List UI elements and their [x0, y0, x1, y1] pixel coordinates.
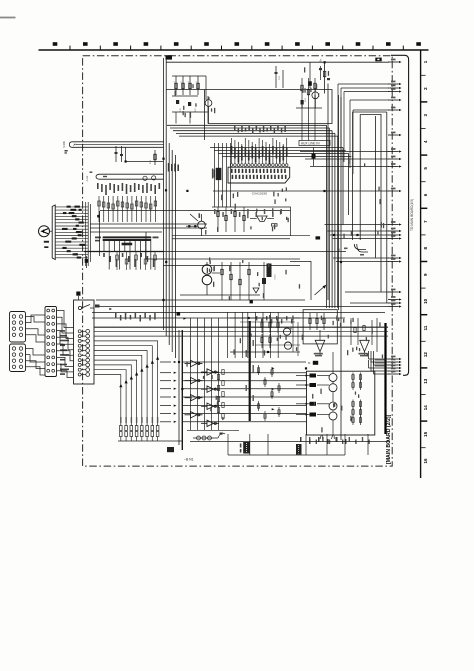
svg-text:15: 15 — [423, 431, 428, 437]
shielded cable S.008 — [69, 142, 163, 148]
labels q4 — [256, 316, 292, 324]
bus wires mid nest — [167, 124, 327, 126]
transistor Q402 — [284, 342, 291, 349]
wire bottom collect — [118, 440, 183, 442]
thick vertical IC bar — [249, 321, 251, 421]
right ruler ticks — [421, 75, 428, 447]
connector bar CN102 — [96, 174, 164, 179]
transistors lower box — [329, 374, 337, 382]
wires through connector field — [85, 202, 87, 266]
wires arrows band4 — [325, 224, 390, 226]
svg-text:R120: R120 — [150, 160, 152, 164]
arrow column mid — [160, 361, 171, 363]
wire vertical bus from top border — [163, 58, 165, 330]
svg-text:C110: C110 — [279, 76, 281, 80]
resistor array bottom — [120, 426, 159, 442]
bus verticals far right — [327, 84, 329, 301]
svg-text:C114: C114 — [319, 93, 321, 97]
junction dots bus — [162, 158, 164, 160]
AUX LINE label box — [299, 141, 330, 146]
top ruler ticks — [70, 46, 403, 50]
wires arrows band6 — [369, 358, 390, 360]
IC101 designator label — [216, 168, 222, 180]
wire frame q4 — [230, 317, 300, 319]
component labels row — [97, 183, 160, 195]
junction on pin row — [97, 215, 100, 218]
label box aux — [296, 444, 302, 455]
svg-text:16: 16 — [423, 458, 428, 464]
connector CN301 — [10, 312, 26, 343]
label box IC601 — [243, 442, 249, 454]
amp box upper — [303, 310, 337, 344]
ribbon connector CN101 — [52, 205, 55, 260]
wire rows left cluster — [90, 223, 207, 225]
top ruler zone letters — [53, 42, 421, 46]
transistor Q101 cluster — [172, 75, 206, 77]
cluster Q502 wires — [350, 318, 352, 345]
wires cluster to bus — [375, 359, 386, 361]
electrolytic caps row — [193, 437, 218, 439]
connector pin labels — [62, 206, 85, 259]
pin labels left of relay — [60, 330, 69, 375]
top ruler line — [39, 49, 429, 51]
switch arm wire — [315, 285, 327, 295]
mid arrows on wires — [272, 367, 275, 369]
component row resistors — [98, 196, 157, 222]
labels below bold wire — [103, 253, 154, 267]
border marker B2 — [166, 55, 173, 59]
electrolytic C301 — [262, 278, 266, 284]
capacitor C120 — [115, 146, 117, 162]
resistor R215 — [272, 224, 278, 226]
op-amp Q501 — [315, 340, 325, 351]
label block M — [167, 447, 174, 452]
components below bold wire — [116, 252, 157, 271]
svg-text:C105: C105 — [180, 108, 182, 112]
junction sq y313 — [177, 312, 181, 316]
wire y430.7 — [187, 430, 239, 432]
vertical drops bottom — [227, 434, 229, 455]
bold wire y251 — [84, 251, 164, 253]
IC201 label box — [267, 264, 272, 278]
transistor Q102 cluster right — [308, 81, 312, 86]
resistor array labels — [120, 417, 158, 423]
svg-text:12: 12 — [423, 352, 428, 358]
terminal A circle — [39, 226, 50, 237]
connector end marker — [85, 259, 89, 263]
resistors lower box — [352, 373, 354, 383]
labels center1 — [214, 209, 282, 217]
svg-text:CXA1019S: CXA1019S — [252, 192, 267, 196]
svg-text:10: 10 — [423, 298, 428, 304]
svg-text:13: 13 — [423, 378, 428, 384]
arrow y318 — [183, 318, 186, 320]
wire frame center1 — [100, 207, 291, 236]
amp box lower — [307, 371, 375, 435]
vertical comb left — [190, 318, 192, 430]
wire long to edge y191 — [213, 190, 389, 192]
svg-text:14: 14 — [423, 405, 428, 411]
svg-text:AUX LINE IN: AUX LINE IN — [301, 142, 320, 146]
vertical comb center — [227, 312, 229, 358]
wires down from bus bar — [104, 241, 151, 270]
bottom rail wires — [190, 441, 390, 443]
transistor bottom — [218, 433, 225, 438]
component M — [313, 361, 318, 365]
wire up from relay block — [78, 296, 80, 300]
relay switch block RY301 — [74, 300, 95, 384]
wires arrows band5 — [333, 257, 389, 259]
schematic dash-dot border — [83, 56, 393, 466]
ticks under box — [320, 435, 334, 439]
wire inner frame — [207, 96, 209, 124]
svg-text:IC201: IC201 — [275, 273, 277, 279]
resistors q4 cluster — [261, 319, 263, 333]
svg-text:B+: B+ — [319, 58, 323, 62]
IC101 body — [228, 167, 290, 183]
svg-text:R115: R115 — [305, 98, 307, 102]
junction dots q201 — [188, 225, 190, 227]
wire riser to bus — [125, 147, 127, 161]
reference designator text noise — [175, 67, 385, 432]
transistor Q401 — [283, 328, 290, 335]
resistor column between ladder — [222, 370, 224, 375]
vertical bus pair mid — [178, 330, 180, 445]
IC101 pins — [232, 138, 287, 163]
wire long y235 — [172, 235, 310, 237]
bus nest lower — [210, 147, 343, 149]
svg-text:R107: R107 — [195, 108, 197, 112]
wire harness between connectors — [26, 311, 74, 378]
pin name row above nest — [234, 126, 286, 134]
right edge collector wire — [391, 55, 409, 375]
labels bottom strip — [300, 437, 347, 444]
guide mark — [95, 305, 100, 308]
wires to edge band3 — [300, 151, 389, 153]
page top-left registration line — [0, 17, 16, 19]
bridge component — [257, 216, 268, 222]
diode D402 — [316, 236, 321, 239]
connector CN303 mid — [45, 307, 57, 377]
svg-text:P.008: P.008 — [87, 175, 89, 181]
comb components — [258, 365, 260, 375]
capacitor C110 top mid — [275, 66, 277, 88]
switch S301 — [78, 306, 81, 309]
wire vertical bus extension — [168, 143, 170, 345]
components in box Q501 — [309, 313, 311, 330]
diode D201 — [312, 154, 316, 159]
op-amp Q502 — [360, 340, 370, 351]
wire row y306-318 — [96, 306, 388, 308]
transistor Q301 Q302 power pair — [202, 265, 212, 275]
diode D301 — [253, 288, 259, 293]
labels above staircase — [115, 313, 156, 322]
wire top center2 — [146, 258, 300, 260]
frame center2 right — [290, 261, 311, 300]
arrows on staircase drops — [156, 356, 159, 360]
IC101 pin bubbles — [230, 164, 288, 167]
diode ladder column — [185, 360, 220, 426]
jack J1 — [143, 176, 147, 180]
right ruler line — [420, 50, 422, 478]
connector arrows to main board — [388, 59, 402, 376]
svg-text:11: 11 — [423, 325, 428, 330]
svg-text:S.008: S.008 — [63, 141, 66, 148]
resistors center1 — [217, 207, 219, 232]
wires transistor col — [332, 352, 334, 374]
resistor R120 — [154, 150, 156, 165]
pin function labels above IC — [231, 146, 288, 165]
block pins — [78, 330, 81, 333]
connector CN302 — [10, 344, 26, 372]
wire staircase harness — [94, 327, 388, 426]
bus bar dark — [103, 236, 152, 241]
wire bottom center2 — [180, 294, 260, 296]
wire verticals box to cluster — [214, 143, 216, 207]
border marker B3 — [375, 58, 381, 62]
labels lower box — [309, 437, 370, 444]
svg-text:TO MAIN BOARD(1/3): TO MAIN BOARD(1/3) — [410, 199, 414, 231]
svg-text:[MAIN BOARD (2/2)]: [MAIN BOARD (2/2)] — [386, 414, 392, 464]
resistors center2 — [221, 262, 223, 300]
wires mid to right box — [183, 361, 306, 363]
wires cluster drop — [175, 112, 177, 124]
svg-text:−B N1: −B N1 — [184, 458, 194, 462]
bus net labels — [168, 163, 179, 172]
junction node — [250, 300, 253, 303]
transistor Q201 — [198, 221, 206, 229]
diodes lower box — [310, 374, 317, 378]
thick bus wire right — [384, 323, 386, 434]
bus wires upper right to edge — [166, 61, 389, 63]
node B+ top entry — [324, 62, 326, 93]
wire top box frame — [166, 90, 332, 124]
junction dots — [333, 234, 335, 236]
bus vertical pair right — [338, 95, 340, 310]
